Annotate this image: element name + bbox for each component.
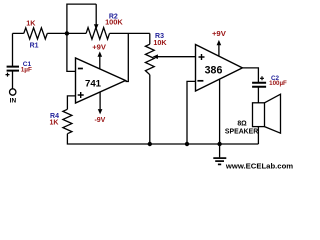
wire R4 bottom to ground bus: [67, 134, 258, 144]
minus sign 741: [78, 68, 83, 70]
resistor R2 (pot): [86, 28, 109, 40]
svg-text:386: 386: [205, 64, 223, 76]
svg-text:-9V: -9V: [94, 117, 105, 124]
speaker cone: [265, 94, 281, 133]
wire 386 inverting input to bus: [187, 81, 196, 144]
wire 386 output to C2: [242, 68, 258, 82]
speaker body: [253, 103, 265, 127]
svg-text:1K: 1K: [50, 120, 59, 127]
wire 741 output up to rail: [126, 33, 129, 81]
svg-text:SPEAKER: SPEAKER: [225, 128, 258, 135]
svg-text:R1: R1: [30, 43, 39, 50]
svg-text:1µF: 1µF: [21, 66, 32, 73]
op-amp U2 386 triangle: [196, 45, 243, 92]
wire R3 wiper to 386 + input: [157, 56, 195, 58]
node dot 386-minus-bus: [185, 142, 189, 146]
wire speaker bottom to bus: [257, 127, 259, 144]
svg-text:10K: 10K: [153, 38, 167, 47]
plus sign 386: [199, 54, 205, 60]
svg-text:100K: 100K: [105, 17, 123, 26]
wire R3 bottom to bus: [149, 75, 151, 144]
node junction dot A: [65, 31, 69, 35]
op-amp U1 741 triangle: [76, 58, 126, 103]
svg-text:741: 741: [85, 79, 102, 90]
node dot gnd-bus: [217, 142, 221, 146]
wire 741 noninverting input to R4: [67, 96, 75, 109]
svg-text:IN: IN: [10, 97, 17, 104]
wire input rail left segment: [13, 32, 150, 34]
wire C1 bottom lead to IN terminal: [12, 71, 14, 89]
wire C1 top lead: [12, 33, 14, 66]
minus sign 386: [197, 80, 203, 82]
svg-text:+9V: +9V: [212, 29, 227, 38]
terminal IN circle: [10, 89, 16, 95]
resistor R3 zigzag: [145, 44, 154, 74]
svg-text:+9V: +9V: [92, 42, 107, 51]
wire -9V supply 741: [99, 92, 101, 109]
plus sign C1: [6, 73, 10, 77]
wire C2 to speaker: [257, 87, 259, 103]
svg-text:8Ω: 8Ω: [237, 121, 247, 128]
svg-text:1K: 1K: [26, 18, 36, 27]
capacitor C1: [7, 67, 19, 71]
wire 386 ground pin to bus: [219, 79, 221, 144]
wire junction down to 741 inverting input: [67, 33, 76, 71]
svg-text:100µF: 100µF: [269, 80, 287, 87]
resistor R3 (pot) top lead: [149, 33, 151, 44]
resistor R1: [24, 28, 48, 39]
plus sign 741: [78, 92, 84, 98]
svg-text:www.ECELab.com: www.ECELab.com: [225, 162, 293, 171]
capacitor C2: [252, 83, 266, 87]
wire +9V supply 386: [218, 45, 220, 56]
wire junction up to feedback top line: [67, 4, 96, 33]
wire R2 wiper arrow (down): [95, 4, 97, 25]
resistor R4: [63, 109, 72, 133]
wire +9V supply 741: [99, 56, 101, 69]
ground symbol: [219, 144, 221, 157]
plus sign C2: [260, 76, 264, 80]
node dot R3-bus: [148, 142, 152, 146]
